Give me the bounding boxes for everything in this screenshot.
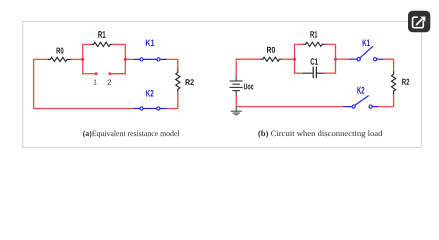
wire R0 to node C <box>282 58 295 60</box>
wire bottom-right after K2 up right edge to R2 <box>167 93 178 109</box>
label pin 1 <box>94 79 97 84</box>
wire left loop: top-left, left edge, bottom to K2 <box>34 59 134 108</box>
resistor R0 <box>48 57 72 61</box>
resistor R1 (right) <box>303 42 324 46</box>
export button <box>408 11 430 32</box>
resistor R0 (right) <box>260 57 281 61</box>
wire stub to terminal 2 <box>110 73 126 75</box>
resistor R2 (right) <box>392 71 396 94</box>
wire K1 to top-right corner down to R2 <box>384 59 394 71</box>
wire top-right from K1 to R2 top <box>167 59 178 69</box>
terminal dot 1 <box>95 72 98 75</box>
label R0 (right) <box>267 47 275 53</box>
wire parallel-box right vertical <box>335 44 337 73</box>
wire parallel-box left vertical <box>294 44 296 73</box>
resistor R1 <box>92 42 113 46</box>
switch K1 (closed) <box>134 58 167 60</box>
wire R2 bottom to bottom-right corner to K2 <box>378 93 394 106</box>
terminal dot 2 <box>108 72 111 75</box>
label C1 <box>311 58 318 65</box>
label R1 (left) <box>98 31 105 38</box>
label R2 (right) <box>402 79 409 85</box>
label K1 (right) <box>363 40 370 47</box>
node C junction dot <box>293 58 296 61</box>
label R1 (right) <box>310 31 317 37</box>
battery Uoc <box>235 77 237 81</box>
wire node B to K1 <box>125 58 134 60</box>
node D junction dot <box>334 58 337 61</box>
switch K2 (closed) <box>133 108 166 110</box>
wire R0 to node A <box>71 58 82 60</box>
label pin 2 <box>108 80 111 85</box>
label K2 (left) <box>146 90 153 97</box>
wire R1 branch left lead <box>82 43 91 45</box>
resistor R2 (left) <box>176 69 180 92</box>
wire C1 branch leads (red parts) <box>294 72 303 74</box>
panel border <box>23 21 422 147</box>
wire R1 branch right lead <box>112 43 126 45</box>
wire R1 branch leads <box>294 43 303 45</box>
label K1 (left) <box>146 40 155 46</box>
node B junction dot <box>124 58 127 61</box>
ground <box>235 107 237 111</box>
capacitor C1 <box>303 72 313 74</box>
label R0 (left) <box>57 47 64 53</box>
wire stub to terminal 1 <box>82 73 96 75</box>
switch K1 (open) <box>349 58 357 60</box>
wire top-left from battery to R0 <box>236 59 260 77</box>
switch K2 (open) <box>343 106 352 108</box>
node A junction dot <box>81 58 84 61</box>
wire battery bottom vertical (red part) <box>235 96 237 107</box>
label caption (a) <box>83 130 179 137</box>
label R2 (left) <box>186 79 194 85</box>
label Uoc <box>244 83 254 89</box>
wire node D to K1 <box>336 58 350 60</box>
label K2 (right) <box>357 87 364 94</box>
label caption (b) <box>258 130 382 137</box>
wire bottom from battery to K2 <box>236 106 343 108</box>
wire parallel-box right vertical <box>124 44 126 73</box>
wire parallel-box left vertical <box>82 44 84 73</box>
